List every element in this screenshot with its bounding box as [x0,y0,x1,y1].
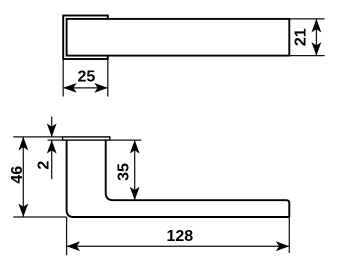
dimension 128 extension line right [288,217,290,253]
svg-text:35: 35 [116,163,133,181]
dimension 21 arrow bottom [312,42,322,56]
dimension 46 arrow bottom [18,204,28,218]
handle bar (top view) [67,19,290,56]
dimension 25 extension line right [107,59,109,96]
svg-text:46: 46 [9,166,26,184]
dimension 25 extension line left [62,59,64,96]
dimension 21 extension line bottom [289,55,324,57]
dimension 21 line [315,19,317,56]
dimension 2 upper arrow (points down) [47,123,57,137]
svg-text:128: 128 [166,228,193,245]
dimension 25 line [63,87,108,89]
rose (square rosette, top view) [63,16,108,60]
dimension 2 lower arrow line [51,140,53,179]
dimension 35 extension line top [110,139,141,141]
dimension 2 lower arrow (points up) [47,140,57,154]
dimension 35 arrow top [130,140,140,154]
dimension 35 line [134,140,136,200]
rose plate (front view, edge on) [63,137,110,140]
dimension 25 arrow right [94,83,108,93]
dimension 128 arrow right [276,241,290,251]
dimension 25 arrow left [63,83,76,93]
dimension 35 arrow bottom [130,187,140,201]
svg-text:25: 25 [78,69,96,86]
svg-text:2: 2 [35,161,52,170]
dimension 2 upper arrow line [51,117,53,137]
dimension 46 extension line bottom [13,216,66,218]
dimension 21 extension line top [289,18,324,20]
handle neck left edge + bar bottom (front view) [67,140,290,217]
dimension 46 extension line top [13,136,62,138]
dimension 46 arrow top [18,137,28,151]
svg-text:21: 21 [292,28,309,46]
dimension 2 extension line [48,139,63,141]
handle neck right edge + bar top + right end (front view) [106,140,290,217]
dimension 21 arrow top [312,19,322,33]
dimension 46 line [22,137,24,217]
dimension 128 extension line left [66,217,68,255]
dimension 128 arrow left [67,241,81,251]
dimension 128 line [67,245,290,247]
